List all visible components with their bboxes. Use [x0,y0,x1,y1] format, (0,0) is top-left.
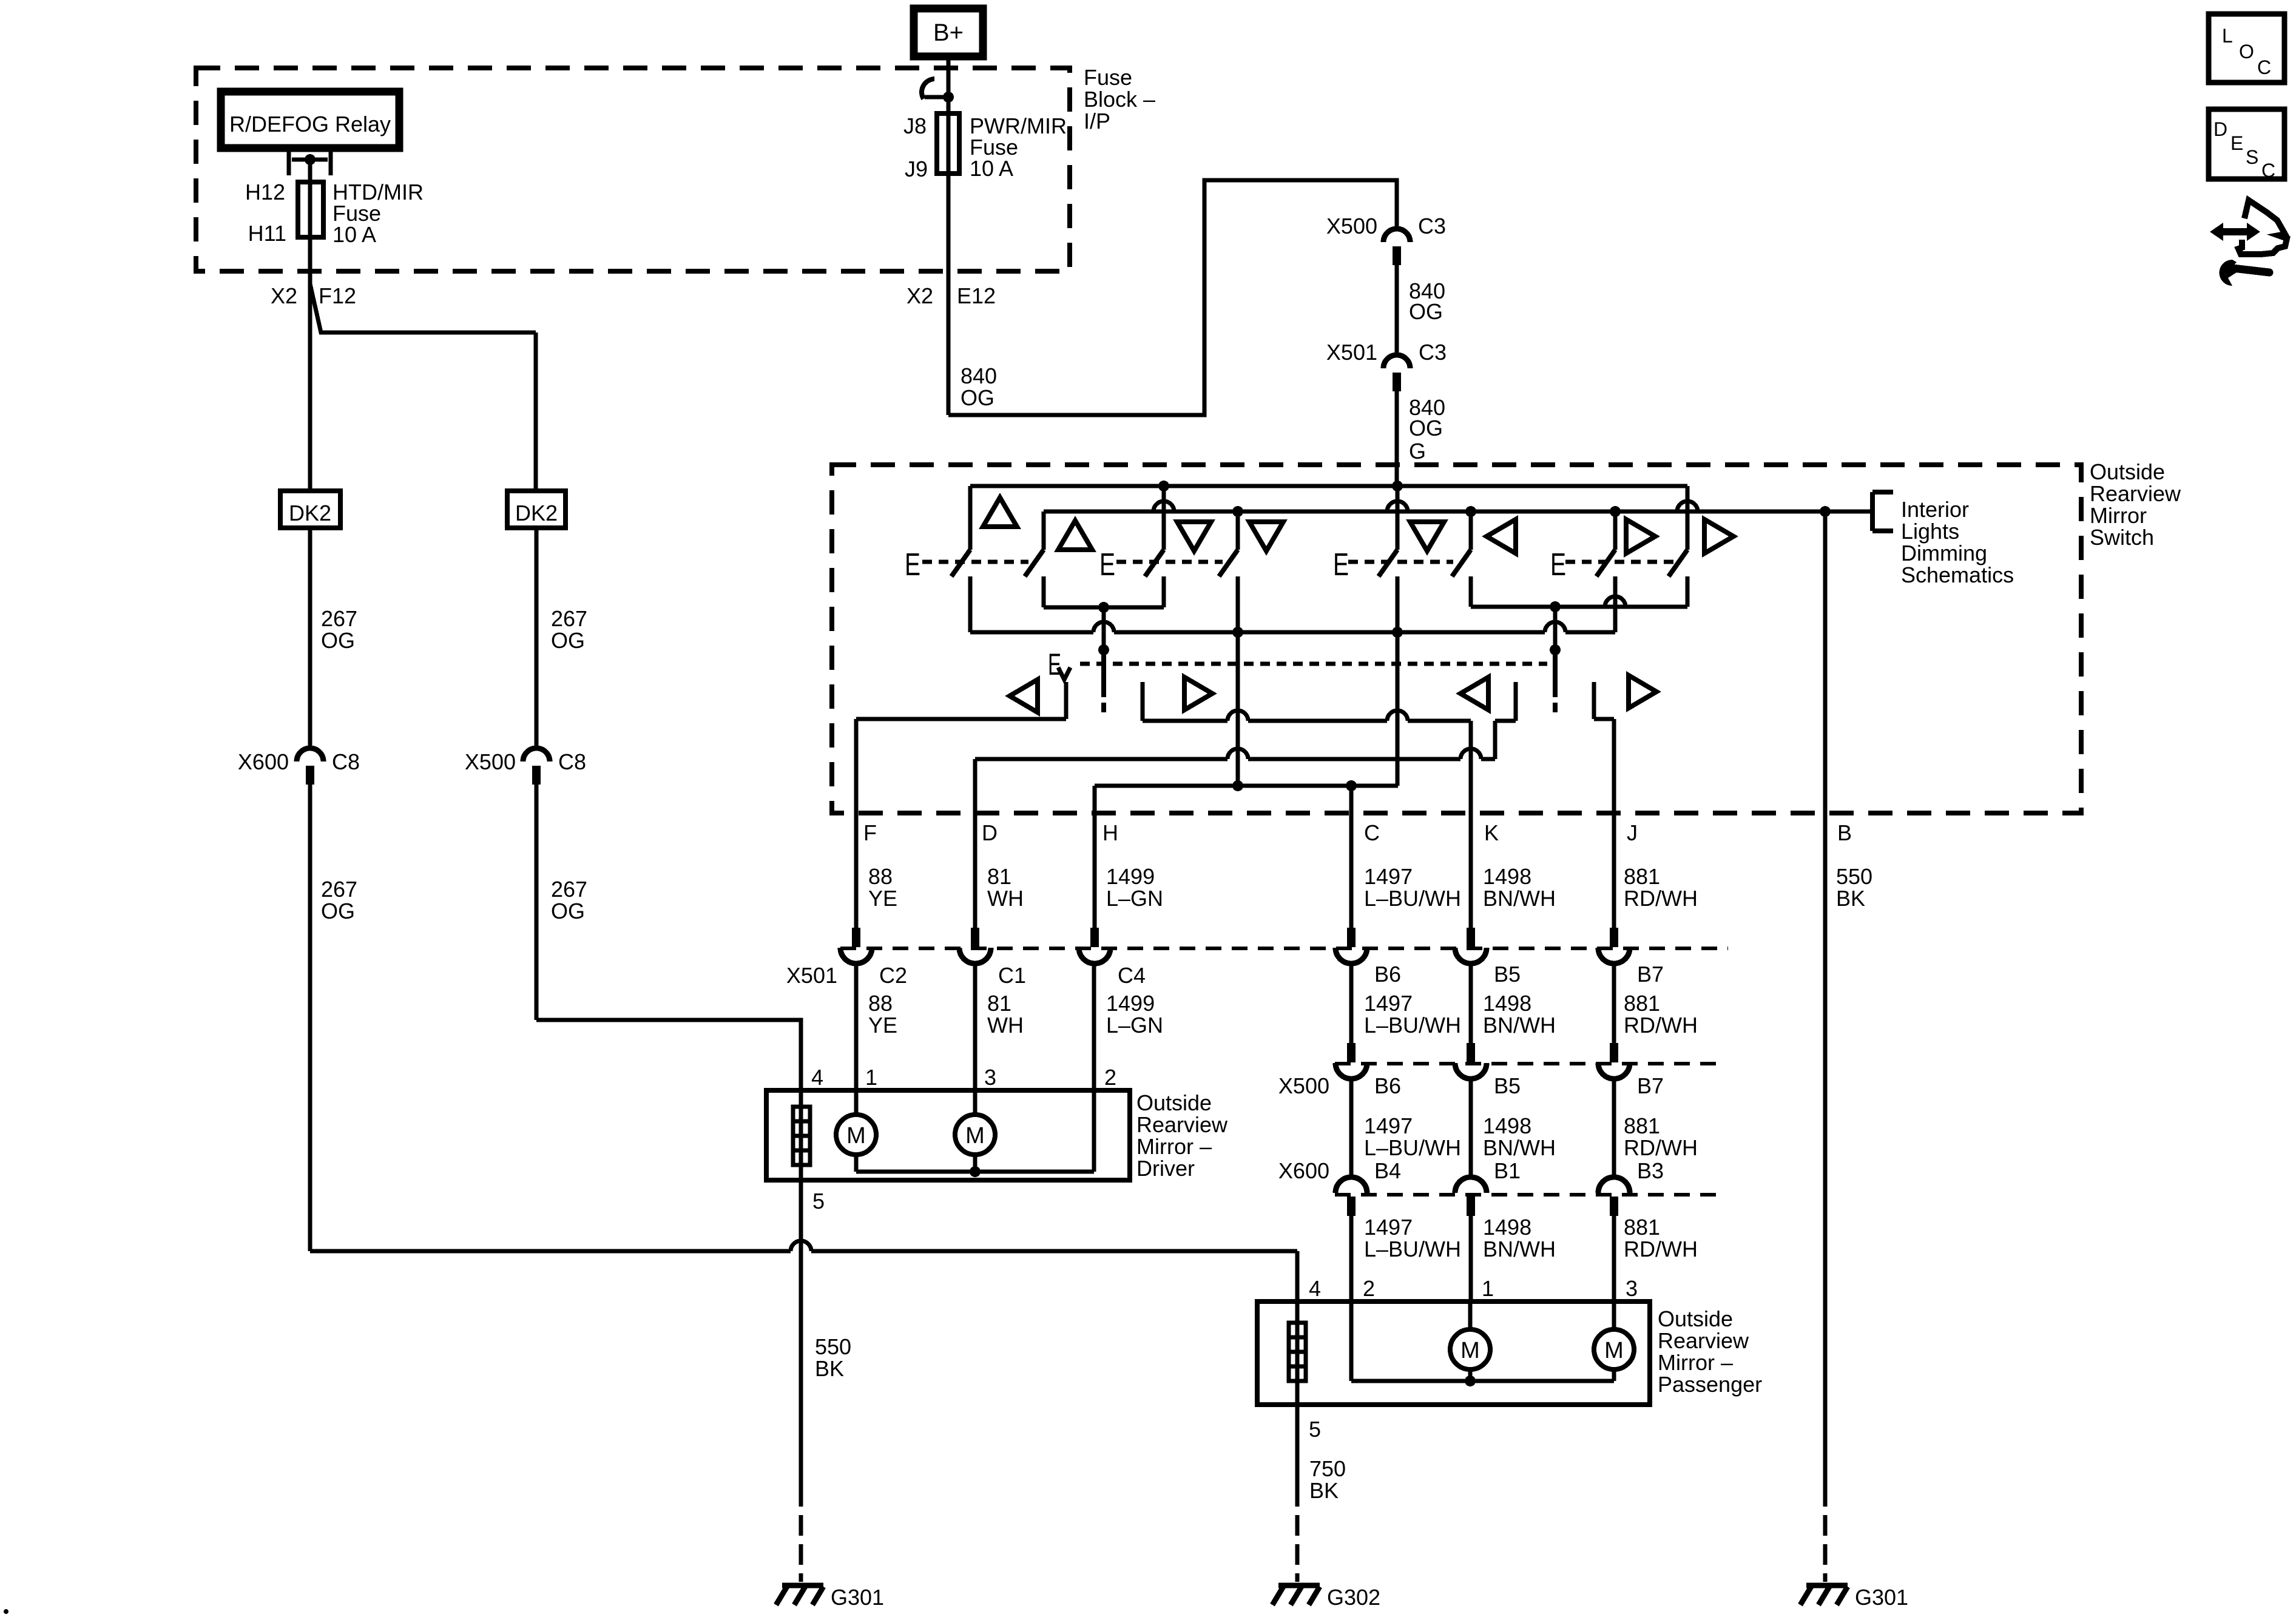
wire motor2 bottom [973,1155,977,1172]
svg-text:Lights: Lights [1901,519,1959,544]
svg-text:88: 88 [868,864,893,889]
stray period mark bottom left [4,1609,8,1614]
svg-text:2: 2 [1363,1276,1375,1301]
svg-text:RD/WH: RD/WH [1624,1135,1698,1160]
connector X501 C4 [1079,928,1110,964]
wire S2 pivot stub [1042,511,1046,550]
wire select pole B feed [1553,607,1558,650]
switch blade S6 [1452,550,1471,576]
svg-text:E12: E12 [957,283,996,308]
svg-text:C: C [2257,56,2271,78]
symbol left arrow pole A [1010,680,1038,712]
wire J column upper [1612,719,1616,935]
switch blade S1 [951,550,970,576]
svg-text:G301: G301 [831,1585,884,1610]
svg-text:B6: B6 [1374,962,1401,987]
svg-text:Rearview: Rearview [2090,481,2181,506]
fuse block I/P dashed box [196,68,1070,271]
wire S8 bottom stub [1686,576,1690,607]
wire 1497 to passenger pin 2 [1349,1215,1354,1301]
wire pole B left contact jog [1514,682,1518,721]
svg-text:881: 881 [1624,864,1660,889]
wire 267 OG to driver mirror common [535,785,539,1020]
svg-text:OG: OG [961,385,994,410]
wire top bus [970,484,1687,488]
relay pin bracket [289,152,331,175]
svg-text:H: H [1102,820,1118,845]
svg-text:Dimming: Dimming [1901,541,1987,565]
svg-text:Mirror –: Mirror – [1658,1350,1733,1375]
svg-text:RD/WH: RD/WH [1624,1013,1698,1038]
svg-text:L–BU/WH: L–BU/WH [1364,886,1461,911]
svg-text:1497: 1497 [1364,991,1413,1016]
switch blade select pole B [1553,650,1558,697]
icon LOC box [2209,14,2284,83]
svg-text:C3: C3 [1419,340,1447,365]
node upper pair bus right tap [1550,601,1561,612]
svg-text:B7: B7 [1637,962,1664,987]
wire motor bottom [1468,1369,1473,1381]
svg-text:BK: BK [1309,1478,1339,1503]
connector curl at J8 [922,79,934,99]
wire 1499 L-GN to driver pin 2 [1092,963,1096,1090]
wire S5 pivot stub [1396,486,1400,550]
connector X600 B1 [1455,1177,1487,1216]
symbol up arrow S1 [983,498,1017,527]
svg-text:1497: 1497 [1364,864,1413,889]
wire S6 pivot stub [1469,511,1473,550]
symbol down arrow S4 [1249,522,1283,551]
svg-text:BN/WH: BN/WH [1483,1135,1556,1160]
svg-text:DK2: DK2 [515,501,558,525]
svg-text:Driver: Driver [1136,1156,1195,1181]
wire pole A right contact to K [1141,682,1145,721]
wire 88 YE to driver pin 1 [854,963,859,1090]
svg-text:B6: B6 [1374,1073,1401,1098]
svg-text:RD/WH: RD/WH [1624,1237,1698,1261]
symbol right arrow pole A [1184,677,1212,710]
wire S2 bottom stub [1042,576,1046,607]
wire S4 bottom stub [1236,576,1240,632]
svg-text:RD/WH: RD/WH [1624,886,1698,911]
fuse HTD/MIR 10A [308,182,312,237]
svg-text:1498: 1498 [1483,1215,1531,1240]
svg-text:X600: X600 [1278,1158,1329,1183]
svg-text:C: C [1364,820,1380,845]
svg-text:267: 267 [321,877,357,902]
svg-text:BN/WH: BN/WH [1483,1237,1556,1261]
wire pin3 to motor [973,1090,977,1115]
svg-text:1499: 1499 [1106,864,1155,889]
switch blade S5 [1379,550,1397,576]
connector X500 B6 [1335,1043,1367,1079]
node outer bus S5 bottom [1392,627,1403,638]
svg-text:L–GN: L–GN [1106,886,1163,911]
wire motor1 bottom [854,1155,859,1172]
fuse PWR/MIR 10A [947,113,951,174]
wire X501 dashed row [840,947,1728,950]
svg-text:X501: X501 [1326,340,1377,365]
node passenger motors junction [1465,1376,1476,1386]
wire S8 pivot stub [1686,486,1690,550]
svg-text:B4: B4 [1374,1158,1401,1183]
svg-text:1498: 1498 [1483,864,1531,889]
svg-text:WH: WH [987,886,1024,911]
wire X600 dashed row [1335,1193,1726,1197]
motor M driver vertical [955,1115,995,1155]
wire 1497 to X500 [1349,963,1354,1044]
symbol left arrow S6 [1487,519,1516,553]
wire S4 pivot stub [1236,511,1240,550]
svg-text:M: M [846,1123,866,1149]
svg-text:L–BU/WH: L–BU/WH [1364,1135,1461,1160]
ground G302 [1272,1585,1320,1605]
wire pin2 to motor return [1092,1090,1096,1172]
svg-text:F: F [863,820,877,845]
svg-text:4: 4 [1309,1276,1321,1301]
svg-text:C4: C4 [1118,963,1146,988]
node second bus S4 [1232,506,1243,517]
svg-text:B: B [1837,820,1852,845]
switch blade S3 [1145,550,1164,576]
wire S7 pivot stub [1613,511,1618,550]
node second bus B feed [1820,506,1831,517]
wire upper pair bus right [1471,605,1687,609]
svg-text:1498: 1498 [1483,1113,1531,1138]
svg-text:X501: X501 [786,963,837,988]
svg-text:4: 4 [811,1065,823,1090]
wire pin1 passenger to motor [1468,1301,1473,1329]
connector X501 C2 [840,928,872,964]
wire outer pair bus [970,630,1093,635]
symbol left arrow pole B [1460,677,1488,710]
svg-text:Outside: Outside [1136,1090,1212,1115]
wire fuse H11 to DK2 left, circuit 267 OG [308,237,312,491]
svg-text:5: 5 [812,1189,825,1214]
node driver motors junction [970,1166,981,1177]
wire 81 WH to driver pin 3 [973,963,977,1090]
icon DESC box [2209,109,2284,179]
wire pin1 to motor [854,1090,859,1115]
wire pin2 passenger to return [1349,1301,1354,1381]
wire through passenger connector pin 5 to ground 750 BK [1295,1301,1300,1507]
node top bus S3 [1158,481,1169,491]
svg-text:M: M [1460,1338,1480,1363]
svg-text:M: M [965,1123,985,1149]
wire K column upper [1469,721,1473,935]
svg-text:OG: OG [551,899,585,923]
wire 267 OG to passenger mirror common [308,785,312,1251]
wire through driver connector to pin 5 [799,1090,803,1251]
connector X500 C3 [1383,229,1410,265]
svg-text:Schematics: Schematics [1901,562,2014,587]
wire second bus to interior lights dimming [1044,510,1872,514]
wire motor bottom right [1612,1369,1616,1381]
svg-text:C: C [2261,160,2275,181]
wire passenger motors common [1351,1379,1614,1383]
symbol right arrow pole B [1629,675,1656,708]
wire upper pair bus left [1044,606,1164,610]
connector X600 B4 [1335,1177,1367,1216]
svg-text:881: 881 [1624,991,1660,1016]
svg-text:Block –: Block – [1084,87,1155,112]
wire D column upper [973,759,977,935]
svg-text:5: 5 [1309,1417,1321,1442]
connector X501 B7 [1598,928,1630,964]
svg-text:O: O [2239,41,2254,62]
svg-text:550: 550 [1836,864,1872,889]
symbol right arrow S8 [1704,519,1734,553]
wire B+ down to PWR/MIR fuse [947,56,951,113]
wire 267 OG left [308,528,312,748]
svg-text:C3: C3 [1418,214,1446,238]
svg-text:J8: J8 [903,113,927,138]
wire 840 OG routing right and up [948,180,1397,415]
svg-text:X500: X500 [465,749,516,774]
svg-text:D: D [982,820,998,845]
svg-text:1497: 1497 [1364,1215,1413,1240]
interior lights dimming bracket [1872,492,1893,531]
svg-text:81: 81 [987,864,1011,889]
svg-text:D: D [2213,118,2227,140]
connector X501 C3 [1383,355,1410,391]
svg-text:Rearview: Rearview [1658,1328,1749,1353]
symbol down arrow S5 [1410,522,1444,551]
wire S4 bottom drop [1236,632,1240,786]
svg-text:1497: 1497 [1364,1113,1413,1138]
svg-text:L: L [2222,25,2233,47]
driver mirror pin connector strip [793,1107,810,1165]
power feed B+ box [914,8,983,56]
svg-text:E: E [1099,547,1115,582]
wire F column upper [854,719,859,935]
svg-text:B7: B7 [1637,1073,1664,1098]
svg-text:Rearview: Rearview [1136,1112,1228,1137]
svg-text:B3: B3 [1637,1158,1664,1183]
wire S5 bottom stub [1396,576,1400,632]
svg-text:Mirror: Mirror [2090,503,2147,528]
svg-text:B5: B5 [1494,962,1521,987]
svg-text:H12: H12 [245,180,285,204]
node select pole A pivot [1098,644,1109,655]
svg-text:840: 840 [961,363,997,388]
wire C column upper [1349,786,1354,935]
node second bus S6 [1465,506,1476,517]
svg-text:Outside: Outside [2090,459,2165,484]
wire S1 bottom stub [968,576,973,632]
switch blade S2 [1025,550,1044,576]
wire 840 OG between connectors [1395,265,1399,355]
wire 1498 to X600 [1469,1078,1473,1179]
svg-text:WH: WH [987,1013,1024,1038]
connector X500 B7 [1598,1043,1630,1079]
node 840 OG G entry [1392,481,1403,491]
svg-text:88: 88 [868,991,893,1016]
svg-text:BN/WH: BN/WH [1483,886,1556,911]
wire S3 pivot stub [1162,486,1166,550]
svg-text:DK2: DK2 [289,501,331,525]
svg-text:E: E [2230,132,2243,154]
node J8 tap [943,92,954,103]
svg-text:OG: OG [1409,416,1443,441]
switch blade S8 [1669,550,1687,576]
svg-text:B5: B5 [1494,1073,1521,1098]
motor M passenger horizontal [1450,1329,1490,1369]
svg-text:X500: X500 [1278,1073,1329,1098]
motor M driver horizontal [836,1115,876,1155]
svg-text:YE: YE [868,1013,897,1038]
connector X600 B3 [1598,1177,1630,1216]
svg-text:J: J [1627,820,1638,845]
motor M passenger vertical [1594,1329,1634,1369]
node H C bus S4 drop [1232,780,1243,791]
switch blade S7 [1596,550,1615,576]
symbol down arrow S3 [1177,522,1211,551]
svg-text:R/DEFOG Relay: R/DEFOG Relay [229,112,391,137]
node outer bus S4 bottom [1232,627,1243,638]
svg-text:Outside: Outside [1658,1306,1733,1331]
node C column tap [1346,780,1357,791]
node select pole B pivot [1550,644,1561,655]
svg-text:267: 267 [551,877,587,902]
wire 840 OG circuit G into switch [1395,391,1399,486]
svg-text:OG: OG [551,628,585,653]
symbol right arrow S7 [1626,519,1655,553]
relay R/DEFOG [221,92,399,148]
wire 1498 to X500 [1469,963,1473,1044]
wire driver motors common [856,1170,1094,1174]
ground G301 left [776,1585,823,1605]
wire H C feed bus [1095,784,1398,788]
icon vehicle with double arrow [2210,200,2287,254]
svg-text:OG: OG [321,899,355,923]
svg-text:X500: X500 [1326,214,1377,238]
svg-text:E: E [1333,547,1349,582]
wire Ev dashed actuator row [1080,662,1547,666]
svg-text:L–BU/WH: L–BU/WH [1364,1237,1461,1261]
svg-text:1: 1 [865,1065,877,1090]
symbol up arrow S2 [1058,521,1092,550]
wire to passenger mirror pin 4 with crossover hop [310,1249,791,1254]
svg-text:BN/WH: BN/WH [1483,1013,1556,1038]
ground G301 right [1800,1585,1848,1605]
wire relay to fuse HTD/MIR [308,160,312,182]
svg-text:X600: X600 [238,749,289,774]
svg-text:10 A: 10 A [970,156,1013,181]
wire 881 to passenger pin 3 [1612,1215,1616,1301]
svg-text:I/P: I/P [1084,109,1110,133]
svg-text:81: 81 [987,991,1011,1016]
wire 267 OG right [535,528,539,748]
connector X501 B6 [1335,928,1367,964]
connector X501 B5 [1455,928,1487,964]
svg-text:G301: G301 [1855,1585,1908,1610]
svg-text:1499: 1499 [1106,991,1155,1016]
wire to driver mirror pin 4 [536,1020,801,1090]
wire X500 dashed row [1335,1062,1726,1065]
svg-text:750: 750 [1309,1456,1346,1481]
svg-text:267: 267 [321,606,357,631]
svg-text:E: E [1550,547,1566,582]
svg-text:X2: X2 [271,283,297,308]
svg-text:881: 881 [1624,1113,1660,1138]
outside rearview mirror passenger box [1257,1301,1650,1405]
svg-text:E: E [905,547,920,582]
wire S5 bottom drop [1396,632,1400,786]
connector DK2 right [507,491,566,528]
wire 1498 to passenger pin 1 [1469,1215,1473,1301]
svg-text:Fuse: Fuse [1084,65,1132,90]
svg-text:2: 2 [1104,1065,1116,1090]
svg-text:1: 1 [1482,1276,1494,1301]
wire E12 down, circuit 840 OG [947,174,951,415]
svg-text:Interior: Interior [1901,497,1969,522]
switch blade S4 [1219,550,1238,576]
connector X500 B5 [1455,1043,1487,1079]
svg-text:X2: X2 [907,283,933,308]
svg-text:BK: BK [1836,886,1865,911]
svg-text:H11: H11 [248,221,286,246]
wire S3 bottom stub [1162,576,1166,607]
connector X600 C8 [297,748,323,785]
svg-text:1498: 1498 [1483,991,1531,1016]
outside rearview mirror switch dashed box [832,465,2081,813]
svg-text:3: 3 [984,1065,996,1090]
connector X500 C8 [523,748,550,785]
switch blade select pole A [1101,650,1106,697]
svg-text:YE: YE [868,886,897,911]
wire select pole A feed [1102,607,1106,650]
wire pole B right contact to J [1592,682,1596,719]
wire 881 to X600 [1612,1078,1616,1179]
svg-text:550: 550 [815,1334,851,1359]
icon wrench [2219,260,2269,286]
wire S6 bottom stub [1469,576,1473,607]
svg-text:E: E [1048,647,1061,681]
svg-text:267: 267 [551,606,587,631]
svg-text:OG: OG [1409,299,1443,324]
wire 1497 to X600 [1349,1078,1354,1179]
node upper pair bus tap [1098,602,1109,613]
svg-text:B1: B1 [1494,1158,1521,1183]
svg-text:C1: C1 [998,963,1026,988]
svg-text:Passenger: Passenger [1658,1372,1762,1397]
wire S7 bottom stub [1613,576,1618,632]
svg-text:Mirror –: Mirror – [1136,1134,1212,1159]
wire 550 BK to ground G301 right [1823,511,1828,1507]
wire 881 to X500 [1612,963,1616,1044]
node relay output [305,154,316,165]
wire pole A left contact [1064,682,1069,719]
svg-text:881: 881 [1624,1215,1660,1240]
connector X501 C1 [959,928,991,964]
svg-text:C2: C2 [879,963,907,988]
wire 550 BK driver ground [799,1251,803,1507]
wire branch to DK2 right [310,284,536,333]
svg-text:BK: BK [815,1356,844,1381]
svg-text:G302: G302 [1327,1585,1380,1610]
outside rearview mirror driver box [766,1090,1130,1180]
svg-text:10 A: 10 A [333,222,376,247]
svg-text:J9: J9 [905,157,928,181]
svg-text:Switch: Switch [2090,525,2154,550]
svg-text:B+: B+ [933,19,964,46]
wire S1 pivot stub [968,486,973,550]
wire pin3 passenger to motor [1612,1301,1616,1329]
connector DK2 left [280,491,340,528]
svg-text:S: S [2246,146,2258,168]
svg-text:F12: F12 [319,283,356,308]
